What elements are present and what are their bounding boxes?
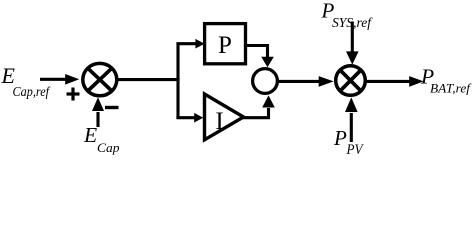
svg-text:PV: PV [346,142,364,158]
svg-text:Cap: Cap [97,140,120,155]
svg-text:BAT,ref: BAT,ref [430,81,472,96]
svg-text:P: P [218,32,232,59]
svg-text:SYS,ref: SYS,ref [332,15,373,30]
svg-text:P: P [333,126,347,150]
svg-text:Cap,ref: Cap,ref [13,85,51,100]
svg-text:E: E [83,123,97,147]
svg-text:I: I [215,108,223,135]
